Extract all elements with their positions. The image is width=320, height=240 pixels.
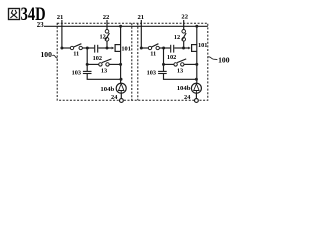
wire to switch 11 (right) [141, 47, 148, 49]
svg-text:11: 11 [73, 51, 79, 58]
wire node A down to switch 13 level (right) [163, 48, 165, 71]
svg-text:101: 101 [121, 45, 130, 52]
svg-text:102: 102 [93, 55, 102, 62]
circuit outer boundary (dashed box) [57, 23, 208, 100]
junction dot on bus 23 (left drain) [119, 25, 122, 28]
svg-text:104b: 104b [100, 86, 114, 93]
svg-text:101: 101 [198, 42, 207, 49]
node junction at 21/switch11 (right) [140, 47, 143, 50]
current source 104b (left block) [100, 83, 126, 93]
transistor 101 (right block) [184, 42, 208, 52]
bus 23 (horizontal supply line) [37, 22, 208, 29]
junction dot on bus 23 (right drain) [195, 25, 198, 28]
partition dashed line (right block left edge) [137, 23, 139, 100]
gate node junction [106, 47, 109, 50]
wire capacitor 102 to gate node [98, 47, 107, 49]
drain column wire (right block) [196, 26, 198, 83]
node A junction [86, 47, 89, 50]
gate node junction (right) [182, 47, 185, 50]
wire node A to capacitor 102 (right) [164, 47, 171, 49]
wire capacitor 103 down and right to drain column [87, 74, 121, 79]
leader 100 (left) [41, 50, 58, 59]
junction dot above current source (right) [195, 78, 198, 81]
junction dot at switch 13 branch [86, 63, 89, 66]
svg-text:103: 103 [147, 70, 156, 77]
svg-text:11: 11 [150, 51, 156, 58]
svg-text:24: 24 [111, 94, 118, 101]
drain column wire (left block) [120, 26, 122, 83]
partition dashed line (left block right edge) [131, 23, 133, 100]
svg-text:13: 13 [101, 68, 107, 75]
wire switch 12 to gate node [106, 41, 108, 48]
switch 12 (vertical) [99, 30, 109, 42]
junction dot at switch 13 branch (right) [162, 63, 165, 66]
terminal 22 (left block, line down to switch 12) [103, 14, 110, 30]
wire capacitor 103 down and right to drain column (right) [164, 74, 197, 79]
capacitor 102 [93, 45, 102, 62]
terminal 24 (right block) [184, 94, 198, 102]
wire node A to capacitor 102 [87, 47, 94, 49]
capacitor 102 (right block) [167, 45, 176, 61]
svg-text:23: 23 [37, 22, 44, 29]
svg-text:12: 12 [99, 33, 105, 40]
svg-text:22: 22 [103, 14, 110, 21]
svg-text:24: 24 [184, 94, 191, 101]
junction dot above current source [120, 78, 123, 81]
svg-text:21: 21 [138, 14, 145, 21]
junction dot switch13/drain (right) [195, 63, 198, 66]
switch 11 (right block) [148, 44, 159, 58]
svg-text:22: 22 [181, 14, 188, 21]
svg-text:21: 21 [57, 14, 64, 21]
figure title 図34D [9, 4, 46, 25]
switch 12 (right block, vertical) [174, 30, 186, 42]
svg-text:103: 103 [72, 70, 81, 77]
wire current source to terminal 24 [120, 93, 122, 98]
switch 13 (right block) [164, 59, 197, 75]
wire switch11 to node A (right) [159, 47, 163, 49]
wire switch11 to node A [82, 47, 87, 49]
terminal 22 (right block, line down to switch 12) [181, 14, 188, 30]
wire switch 12 to gate node (right) [183, 41, 185, 48]
junction dot switch13/drain [119, 63, 122, 66]
leader 100 (right) [208, 55, 230, 64]
wire current source to terminal 24 (right) [195, 93, 197, 98]
terminal 24 (left block) [111, 94, 123, 102]
wire to switch 11 [62, 47, 70, 49]
node junction at 21/switch11 [60, 47, 63, 50]
node A junction (right) [162, 47, 165, 50]
wire capacitor 102 to gate node (right) [174, 47, 183, 49]
transistor 101 (left block) [107, 44, 131, 52]
wire node A down to switch 13 level [86, 48, 88, 71]
svg-text:100: 100 [218, 55, 230, 64]
svg-text:102: 102 [167, 54, 176, 61]
capacitor 103 (left block) [72, 70, 92, 77]
svg-text:13: 13 [177, 68, 183, 75]
svg-text:12: 12 [174, 34, 180, 41]
terminal 21 (right block input line) [138, 14, 145, 48]
svg-text:104b: 104b [177, 85, 191, 92]
terminal 21 (left block input line) [57, 14, 64, 48]
current source 104b (right block) [177, 83, 202, 93]
capacitor 103 (right block) [147, 70, 167, 77]
svg-text:100: 100 [41, 50, 53, 59]
switch 13 [87, 59, 120, 75]
switch 11 [70, 44, 82, 58]
